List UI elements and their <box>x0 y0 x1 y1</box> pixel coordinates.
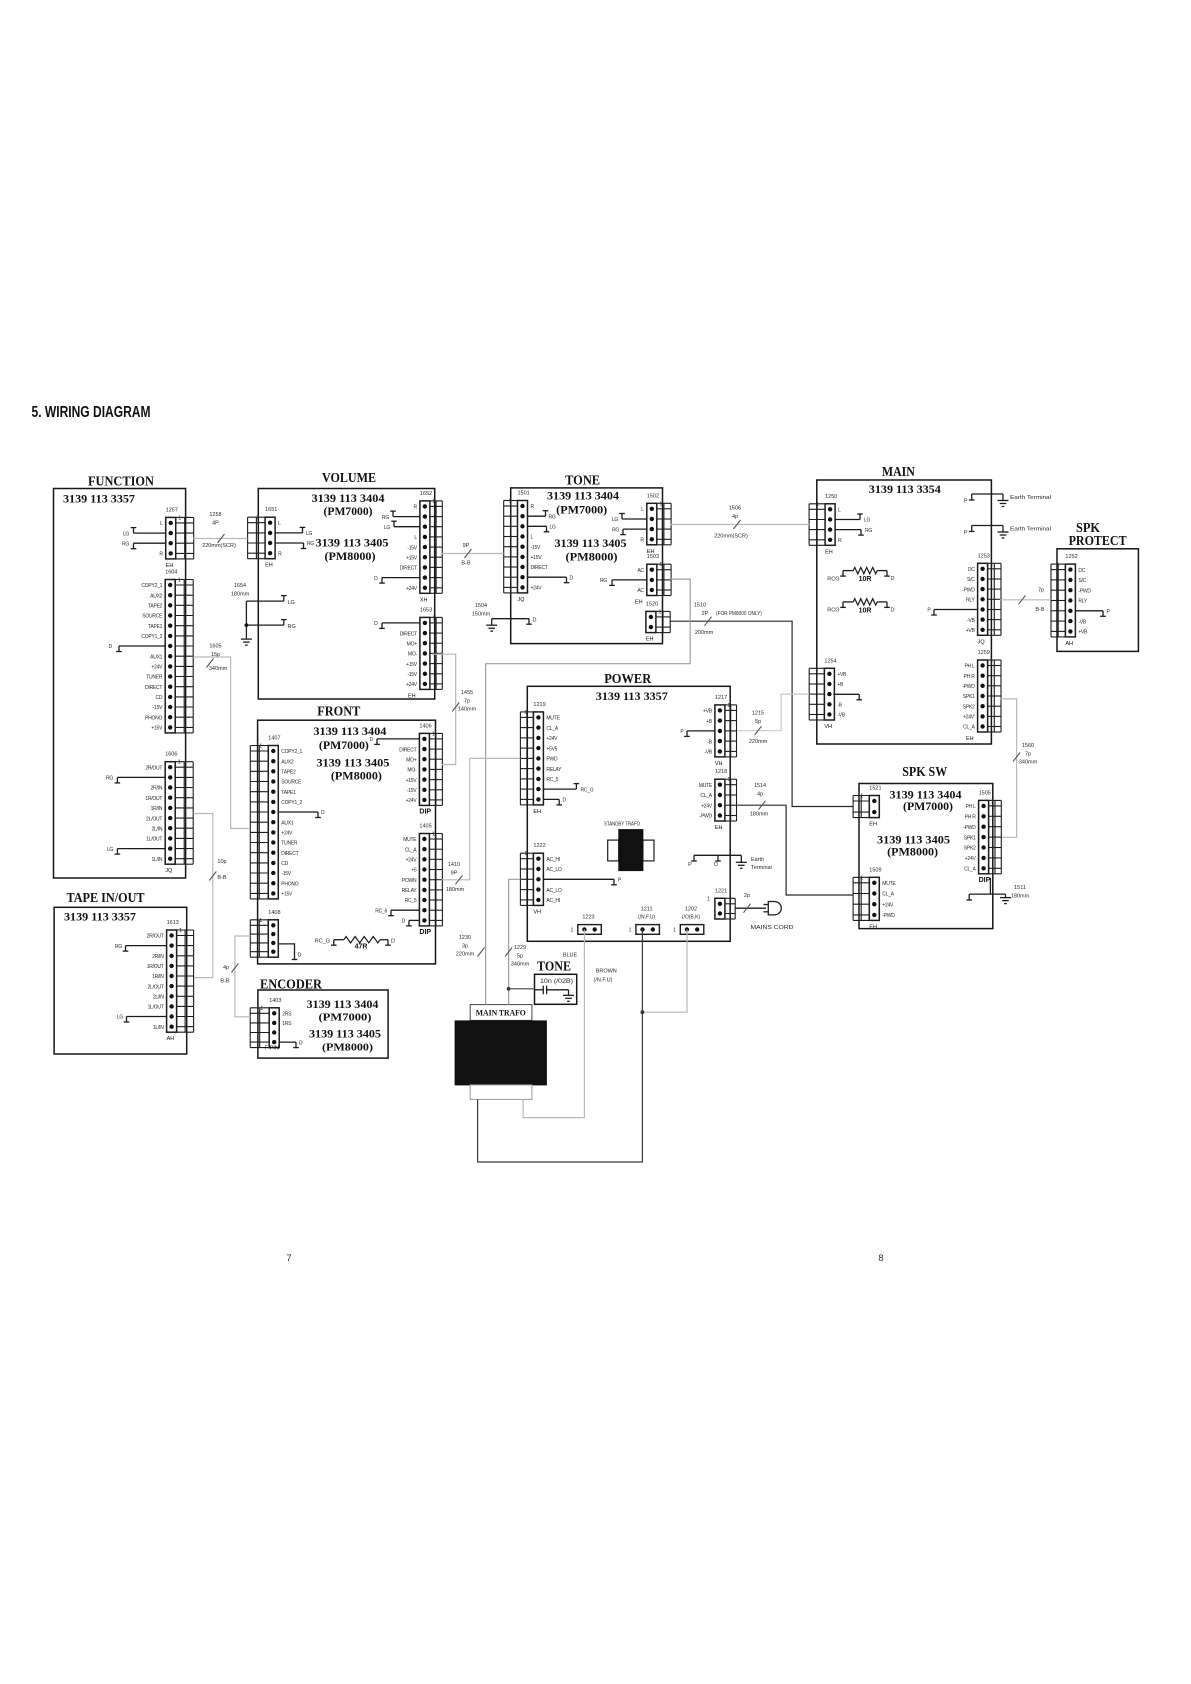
connector 1520 <box>646 601 670 642</box>
connector 1604 <box>109 570 194 733</box>
svg-text:1R/OUT: 1R/OUT <box>145 796 162 802</box>
svg-text:LG: LG <box>117 1015 124 1021</box>
block SPK PROTECT <box>1057 549 1138 652</box>
svg-text:(PM7000): (PM7000) <box>324 506 373 518</box>
svg-text:1: 1 <box>727 703 730 709</box>
wire 1223 to MAIN TRAFO <box>523 930 584 1118</box>
svg-text:SPK1: SPK1 <box>964 835 976 841</box>
svg-text:EH: EH <box>966 736 974 742</box>
connector 1505 <box>963 790 1001 883</box>
svg-text:1605: 1605 <box>209 644 221 650</box>
svg-text:1222: 1222 <box>533 843 545 849</box>
svg-text:1218: 1218 <box>715 769 727 775</box>
svg-text:RG: RG <box>549 514 556 520</box>
connector 1252 <box>1051 554 1111 647</box>
svg-text:+24V: +24V <box>882 902 894 908</box>
svg-text:-PWD: -PWD <box>962 587 975 593</box>
svg-text:1652: 1652 <box>420 491 432 497</box>
svg-text:AC_LO: AC_LO <box>546 888 562 894</box>
svg-text:2p: 2p <box>744 893 750 899</box>
svg-text:+24V: +24V <box>406 798 418 804</box>
svg-text:MO+: MO+ <box>407 641 418 647</box>
svg-text:AUX2: AUX2 <box>281 759 294 765</box>
svg-text:(PM7000): (PM7000) <box>319 740 369 752</box>
svg-text:1: 1 <box>509 499 512 505</box>
svg-text:1654: 1654 <box>234 583 246 589</box>
svg-text:1R/OUT: 1R/OUT <box>147 964 164 970</box>
svg-text:AC: AC <box>637 588 644 594</box>
svg-text:1: 1 <box>259 744 262 750</box>
svg-text:D: D <box>891 608 895 614</box>
svg-text:1L/OUT: 1L/OUT <box>148 1005 164 1011</box>
svg-text:-VB: -VB <box>837 713 846 719</box>
svg-text:+VB: +VB <box>966 628 976 634</box>
svg-text:PH L: PH L <box>964 664 975 670</box>
svg-text:1505: 1505 <box>979 790 991 796</box>
svg-text:1L/IN: 1L/IN <box>151 857 162 863</box>
svg-text:220mm(SCR): 220mm(SCR) <box>202 543 236 549</box>
svg-text:TAPE1: TAPE1 <box>148 624 163 630</box>
svg-text:AC_HI: AC_HI <box>546 857 559 863</box>
svg-text:1406: 1406 <box>419 723 431 729</box>
block TONE <box>511 488 663 644</box>
svg-text:-15V: -15V <box>531 545 541 551</box>
svg-text:RLY: RLY <box>1078 599 1088 605</box>
svg-text:1: 1 <box>432 499 435 505</box>
svg-text:3139 113 3357: 3139 113 3357 <box>596 689 668 703</box>
svg-text:+24V: +24V <box>281 831 293 837</box>
block TONE capacitor <box>535 974 577 1004</box>
svg-text:1: 1 <box>432 615 435 621</box>
svg-text:TAPE1: TAPE1 <box>281 790 296 796</box>
svg-text:10R: 10R <box>859 607 872 614</box>
svg-text:1: 1 <box>260 1006 263 1012</box>
block FUNCTION <box>54 489 186 879</box>
svg-text:180mm: 180mm <box>231 591 250 597</box>
wire 9P B-B (VOLUME 1652 to TONE 1501) <box>441 543 504 567</box>
connector 1651 <box>248 507 315 569</box>
svg-text:180mm: 180mm <box>750 812 769 818</box>
svg-text:-PWD: -PWD <box>962 684 975 690</box>
svg-text:(/N.F.U): (/N.F.U) <box>594 978 613 984</box>
svg-text:EH: EH <box>646 637 654 643</box>
svg-text:CL_A: CL_A <box>546 726 558 732</box>
svg-text:1: 1 <box>571 928 574 934</box>
svg-text:D: D <box>891 576 895 582</box>
svg-text:RG: RG <box>382 515 389 521</box>
connector 1211 <box>629 907 660 935</box>
svg-text:180mm: 180mm <box>446 887 465 893</box>
connector 1501 <box>504 491 574 603</box>
svg-text:MO-: MO- <box>407 768 417 774</box>
ground (POWER earth terminal) <box>740 855 742 862</box>
svg-text:RC_G: RC_G <box>315 938 330 944</box>
svg-text:1202: 1202 <box>685 907 697 913</box>
svg-text:MO-: MO- <box>408 652 418 658</box>
svg-text:1405: 1405 <box>419 824 431 830</box>
svg-text:PH R: PH R <box>965 815 977 821</box>
svg-text:1252: 1252 <box>1065 554 1077 560</box>
svg-text:EH: EH <box>166 563 174 569</box>
svg-text:2P: 2P <box>702 611 709 617</box>
svg-text:+B: +B <box>706 719 713 725</box>
svg-text:D: D <box>391 938 395 944</box>
svg-text:SPK2: SPK2 <box>963 704 975 710</box>
svg-text:SPK2: SPK2 <box>964 846 976 852</box>
svg-text:1211: 1211 <box>641 907 653 913</box>
svg-text:PH L: PH L <box>965 804 976 810</box>
svg-text:RG: RG <box>122 541 129 547</box>
block MAIN <box>817 480 992 744</box>
svg-text:1R/IN: 1R/IN <box>152 974 164 980</box>
svg-text:1403: 1403 <box>269 998 281 1004</box>
svg-text:(PM8000): (PM8000) <box>887 847 938 859</box>
svg-text:+24V: +24V <box>965 856 977 862</box>
wire 1605 (FUNCTION 1604 to FRONT 1407) <box>193 644 250 829</box>
svg-text:1: 1 <box>990 561 993 567</box>
svg-text:LG: LG <box>612 517 619 523</box>
svg-text:B-B: B-B <box>217 875 227 881</box>
svg-text:1407: 1407 <box>268 736 280 742</box>
svg-text:-15V: -15V <box>407 672 417 678</box>
svg-text:+5: +5 <box>411 868 417 874</box>
svg-text:-15V: -15V <box>407 545 417 551</box>
connector 1653 <box>374 607 442 699</box>
ground (TONE 1504) <box>491 619 493 626</box>
connector 1219 <box>520 702 593 815</box>
svg-text:(FOR PM8000 ONLY): (FOR PM8000 ONLY) <box>716 611 762 617</box>
svg-text:3p: 3p <box>462 943 468 949</box>
svg-text:RC_6: RC_6 <box>375 908 387 914</box>
svg-text:RG: RG <box>600 578 607 584</box>
svg-text:VH: VH <box>533 909 541 915</box>
svg-text:D: D <box>533 618 537 624</box>
svg-text:TAPE2: TAPE2 <box>148 604 163 610</box>
svg-text:MO+: MO+ <box>406 757 417 763</box>
svg-text:FRONT: FRONT <box>317 704 360 719</box>
connector 1407 <box>250 736 325 899</box>
svg-text:1: 1 <box>524 851 527 857</box>
svg-text:5p: 5p <box>755 719 761 725</box>
svg-text:1: 1 <box>1056 562 1059 568</box>
svg-text:-VB: -VB <box>967 618 976 624</box>
svg-text:1: 1 <box>178 760 181 766</box>
svg-text:1606: 1606 <box>165 752 177 758</box>
ground (MAIN earth terminal 1) <box>1002 494 1004 501</box>
svg-text:-PWD: -PWD <box>963 825 976 831</box>
svg-text:+24V: +24V <box>701 803 713 809</box>
svg-text:B-B: B-B <box>1035 607 1045 613</box>
svg-text:+24V: +24V <box>531 586 543 592</box>
svg-text:1560: 1560 <box>1022 743 1034 749</box>
svg-text:10R: 10R <box>859 576 872 583</box>
svg-text:FUNCTION: FUNCTION <box>88 474 154 489</box>
junction dot (1229 to TONE cap) <box>507 987 511 991</box>
svg-text:340mm: 340mm <box>1019 760 1038 766</box>
svg-text:1510: 1510 <box>694 603 706 609</box>
svg-text:CL_A: CL_A <box>700 793 712 799</box>
svg-text:1230: 1230 <box>459 935 471 941</box>
svg-text:1: 1 <box>524 710 527 716</box>
svg-text:-VB: -VB <box>1078 619 1087 625</box>
svg-text:1502: 1502 <box>647 493 659 499</box>
svg-text:PHONO: PHONO <box>281 881 298 887</box>
svg-text:TAPE2: TAPE2 <box>281 770 296 776</box>
svg-text:DIRECT: DIRECT <box>281 851 298 857</box>
svg-text:3139 113 3404: 3139 113 3404 <box>547 489 619 503</box>
svg-text:LG: LG <box>107 847 114 853</box>
svg-text:SOURCE: SOURCE <box>142 614 163 620</box>
svg-text:1: 1 <box>990 658 993 664</box>
svg-text:1: 1 <box>179 928 182 934</box>
svg-text:LG: LG <box>550 525 557 531</box>
svg-text:1RS: 1RS <box>282 1021 292 1027</box>
svg-text:+24V: +24V <box>151 665 163 671</box>
svg-text:-PWD: -PWD <box>882 913 895 919</box>
svg-text:5. WIRING DIAGRAM: 5. WIRING DIAGRAM <box>32 404 151 421</box>
connector 1606 <box>106 752 193 875</box>
connector 1509 <box>853 867 896 930</box>
svg-text:+VB: +VB <box>1078 630 1088 636</box>
earth terminal (POWER) <box>688 855 772 871</box>
svg-text:7p: 7p <box>1038 588 1044 594</box>
svg-text:5p: 5p <box>517 953 523 959</box>
svg-text:P: P <box>964 530 968 536</box>
svg-text:8: 8 <box>878 1253 883 1264</box>
transformer STANDBY TRAFO <box>604 822 654 871</box>
svg-text:340mm: 340mm <box>209 666 228 672</box>
svg-text:2L/OUT: 2L/OUT <box>146 816 162 822</box>
svg-text:3139 113 3405: 3139 113 3405 <box>309 1029 381 1041</box>
svg-text:AC: AC <box>637 568 644 574</box>
wire 1254 pin3 stub <box>833 694 862 700</box>
svg-text:TONE: TONE <box>565 473 600 488</box>
svg-text:3139 113 3405: 3139 113 3405 <box>316 536 389 550</box>
svg-text:340mm: 340mm <box>511 962 530 968</box>
svg-text:1653: 1653 <box>420 607 432 613</box>
svg-text:1501: 1501 <box>518 491 530 497</box>
svg-text:ENCODER: ENCODER <box>260 977 322 992</box>
svg-text:(/N.F.U): (/N.F.U) <box>638 915 656 921</box>
svg-text:7p: 7p <box>464 698 470 704</box>
svg-text:1253: 1253 <box>978 553 990 559</box>
wire 1504 with ground (TONE D) <box>472 603 537 631</box>
svg-text:2R/OUT: 2R/OUT <box>147 934 164 940</box>
wire 1455 (VOLUME 1653 to FRONT 1406) <box>432 654 476 764</box>
svg-text:COPY2_1: COPY2_1 <box>141 583 162 589</box>
svg-text:1250: 1250 <box>825 494 837 500</box>
svg-text:-PWD: -PWD <box>1078 588 1091 594</box>
svg-text:RC_G: RC_G <box>581 787 594 793</box>
connector 1613 <box>115 920 194 1042</box>
svg-text:VH: VH <box>824 724 832 730</box>
wire 1211 to MAIN TRAFO <box>478 930 643 1163</box>
svg-text:3139 113 3405: 3139 113 3405 <box>555 536 627 550</box>
svg-text:-PWD: -PWD <box>700 814 713 820</box>
svg-text:1254: 1254 <box>824 658 836 664</box>
svg-text:1: 1 <box>816 502 819 508</box>
svg-text:RG: RG <box>106 776 113 782</box>
svg-text:(PM7000): (PM7000) <box>556 505 607 517</box>
wire 1560 (MAIN 1259 to SPK SW 1505) <box>1000 699 1038 837</box>
svg-text:+24V: +24V <box>406 586 418 592</box>
ground 1511 (SPK SW) <box>966 878 1029 904</box>
svg-text:+15V: +15V <box>406 778 418 784</box>
wire 1230 (TONE 1503 to MAIN TRAFO) <box>456 579 690 1005</box>
svg-text:DIP: DIP <box>979 877 991 884</box>
svg-text:200mm: 200mm <box>695 630 714 636</box>
svg-text:RC_5: RC_5 <box>405 898 417 904</box>
svg-text:3139 113 3404: 3139 113 3404 <box>307 999 379 1011</box>
block ENCODER <box>258 990 388 1058</box>
svg-text:1514: 1514 <box>754 783 766 789</box>
svg-text:MAIN TRAFO: MAIN TRAFO <box>476 1007 526 1017</box>
svg-text:+15V: +15V <box>151 726 163 732</box>
svg-text:P: P <box>688 862 692 868</box>
connector 1405 <box>375 824 442 936</box>
svg-text:1229: 1229 <box>514 945 526 951</box>
svg-text:10n (/02B): 10n (/02B) <box>540 979 573 985</box>
svg-text:-VB: -VB <box>704 750 713 756</box>
svg-text:2R/OUT: 2R/OUT <box>145 765 162 771</box>
svg-text:TUNER: TUNER <box>146 675 163 681</box>
svg-text:1: 1 <box>860 875 863 881</box>
svg-text:3139 113 3357: 3139 113 3357 <box>64 912 136 924</box>
svg-text:RELAY: RELAY <box>402 888 418 894</box>
svg-text:1223: 1223 <box>582 915 594 921</box>
svg-text:1: 1 <box>432 832 435 838</box>
svg-text:3139 113 3405: 3139 113 3405 <box>316 756 389 770</box>
resistor 10R (MAIN upper) <box>827 567 894 583</box>
svg-text:1: 1 <box>673 928 676 934</box>
resistor 10R (MAIN lower) <box>827 599 894 615</box>
svg-text:PWD: PWD <box>546 757 558 763</box>
svg-text:1259: 1259 <box>978 650 990 656</box>
svg-text:(PM8000): (PM8000) <box>566 552 618 564</box>
svg-text:CL_A: CL_A <box>964 867 976 873</box>
wire 10p B-B (FUNCTION 1606 to TAPE 1613) <box>193 814 227 978</box>
svg-text:1: 1 <box>727 777 730 783</box>
svg-text:+VB: +VB <box>837 672 847 678</box>
svg-text:COPY1_2: COPY1_2 <box>281 800 302 806</box>
svg-text:PH R: PH R <box>964 674 976 680</box>
svg-text:1: 1 <box>256 515 259 521</box>
svg-text:1: 1 <box>178 578 181 584</box>
wire 1506 (TONE 1502 to MAIN 1250) <box>670 506 809 540</box>
svg-text:TONE: TONE <box>537 959 571 974</box>
svg-text:2RS: 2RS <box>282 1012 292 1018</box>
capacitor 10n with ground <box>535 979 575 1001</box>
svg-text:4P: 4P <box>212 520 219 526</box>
connector 1254 <box>809 658 847 730</box>
svg-text:F-PIN: F-PIN <box>265 1046 279 1052</box>
svg-text:RC_5: RC_5 <box>546 777 558 783</box>
svg-text:LG: LG <box>306 531 313 537</box>
svg-text:CD: CD <box>155 695 162 701</box>
svg-text:1215: 1215 <box>752 711 764 717</box>
svg-text:1604: 1604 <box>165 570 177 576</box>
svg-text:AH: AH <box>1065 641 1073 647</box>
wire 1410 (FRONT 1405 to POWER 1219) <box>442 758 521 893</box>
svg-text:7p: 7p <box>1025 751 1031 757</box>
wire 1258 (FUNCTION 1257 to VOLUME 1651) <box>193 512 247 549</box>
svg-text:+VB: +VB <box>703 709 713 715</box>
svg-text:P: P <box>964 499 968 505</box>
svg-text:AUX2: AUX2 <box>150 593 163 599</box>
svg-text:DIRECT: DIRECT <box>400 566 417 572</box>
svg-text:(PM7000): (PM7000) <box>903 801 953 813</box>
svg-text:MUTE: MUTE <box>882 881 896 887</box>
svg-text:(PM7000): (PM7000) <box>319 1012 372 1024</box>
svg-text:RG: RG <box>307 541 314 547</box>
wire 1408 D stub <box>278 944 301 960</box>
svg-text:RG: RG <box>865 528 872 534</box>
svg-text:2L/OUT: 2L/OUT <box>148 984 164 990</box>
svg-text:DC: DC <box>1078 568 1085 574</box>
svg-text:POWN: POWN <box>402 878 417 884</box>
earth terminal 2 (MAIN) <box>964 526 1051 539</box>
svg-text:3139 113 3404: 3139 113 3404 <box>313 724 386 738</box>
svg-text:9P: 9P <box>451 870 458 876</box>
svg-text:(/O(B.K): (/O(B.K) <box>682 915 701 921</box>
svg-text:D: D <box>298 953 302 959</box>
svg-text:DIP: DIP <box>419 808 431 815</box>
block TAPE IN/OUT <box>54 907 187 1054</box>
connector 1253 <box>927 553 1001 645</box>
svg-text:DC: DC <box>968 567 975 573</box>
svg-text:1: 1 <box>860 794 863 800</box>
svg-text:EH: EH <box>265 563 273 569</box>
svg-text:+15V: +15V <box>406 556 418 562</box>
connector 1221 <box>707 888 735 919</box>
svg-text:+15V: +15V <box>281 892 293 898</box>
svg-text:VOLUME: VOLUME <box>322 470 376 485</box>
connector 1406 <box>370 723 443 815</box>
svg-text:1521: 1521 <box>869 786 881 792</box>
ground (TONE capacitor) <box>568 990 570 996</box>
svg-text:MUTE: MUTE <box>699 783 713 789</box>
svg-text:S/C: S/C <box>1078 578 1086 584</box>
svg-text:1: 1 <box>707 896 710 902</box>
ground (MAIN earth terminal 2) <box>1002 526 1004 533</box>
svg-text:Earth: Earth <box>751 857 764 863</box>
resistor 47R (FRONT) <box>315 937 395 951</box>
connector 1521 <box>853 786 881 828</box>
earth terminal 1 (MAIN) <box>964 494 1051 507</box>
svg-text:MUTE: MUTE <box>403 837 417 843</box>
connector 1222 <box>520 843 622 915</box>
svg-text:RG: RG <box>288 624 296 630</box>
svg-text:BLUE: BLUE <box>563 953 578 959</box>
svg-text:220mm(SCR): 220mm(SCR) <box>714 534 748 540</box>
svg-text:EH: EH <box>635 600 643 606</box>
svg-text:Terminal: Terminal <box>751 865 772 871</box>
svg-text:DIP: DIP <box>419 929 431 936</box>
wire 1229 (POWER 1222 to MAIN TRAFO) <box>505 879 534 1004</box>
svg-text:2L/IN: 2L/IN <box>153 995 164 1001</box>
svg-text:COPY1_2: COPY1_2 <box>141 634 162 640</box>
svg-text:4p: 4p <box>223 965 229 971</box>
svg-text:MAINS CORD: MAINS CORD <box>751 925 794 931</box>
svg-text:AH: AH <box>167 1036 175 1042</box>
svg-text:JQ: JQ <box>518 597 526 603</box>
svg-text:EH: EH <box>825 549 833 555</box>
svg-text:1408: 1408 <box>268 910 280 916</box>
svg-text:AUX1: AUX1 <box>281 820 294 826</box>
wire 1510 (TONE 1520 to SPK SW 1521, PM8000 only) <box>670 603 854 807</box>
svg-text:1455: 1455 <box>461 690 473 696</box>
svg-text:B-B: B-B <box>461 561 471 567</box>
